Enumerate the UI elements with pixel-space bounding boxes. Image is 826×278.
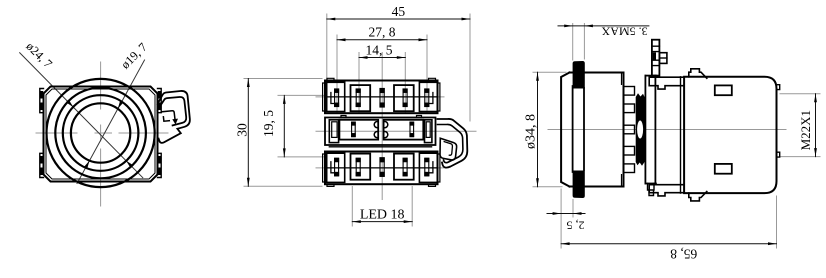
vertical centerline rear view xyxy=(381,53,383,200)
bottom row slot 3 xyxy=(403,158,407,176)
extension line 14,5 right xyxy=(404,53,406,114)
extension M22X1 bottom xyxy=(780,156,820,158)
block ear top xyxy=(649,77,684,89)
middle row slot left xyxy=(352,122,356,137)
middle row contact curls right box xyxy=(385,122,388,138)
extension line 19,5 bottom xyxy=(278,156,324,158)
o-ring black band xyxy=(636,93,645,166)
top row hook left-end xyxy=(331,93,335,104)
bezel front face xyxy=(561,73,569,187)
o-ring highlight lens xyxy=(637,121,643,139)
contact block inner left edge xyxy=(680,77,682,193)
middle row top bump left xyxy=(341,116,346,118)
middle row slot right xyxy=(410,122,414,137)
gasket top black xyxy=(573,61,585,89)
svg-text:14, 5: 14, 5 xyxy=(366,43,393,58)
bottom row box 3 xyxy=(394,154,414,180)
top row structural line xyxy=(325,96,438,98)
svg-text:27, 8: 27, 8 xyxy=(369,25,396,40)
square mounting body front xyxy=(44,87,158,182)
block right bump top xyxy=(777,85,780,90)
svg-text:2, 5: 2, 5 xyxy=(567,219,585,233)
bottom row slot left-end xyxy=(335,158,339,176)
bottom row box 2 xyxy=(351,154,371,180)
dimension line 14,5 xyxy=(359,57,405,59)
top terminal row outer xyxy=(325,81,438,114)
top row slot 2 xyxy=(356,89,360,107)
bezel outer circle xyxy=(47,79,155,187)
centerline middle row xyxy=(316,130,476,132)
tab left upper xyxy=(40,89,44,113)
svg-text:65, 8: 65, 8 xyxy=(670,247,697,262)
rear latch loop xyxy=(438,119,468,168)
bottom row right end cell xyxy=(419,153,437,182)
svg-text:3. 5MAX: 3. 5MAX xyxy=(601,25,647,39)
tower dark segment xyxy=(653,52,656,59)
middle row outer xyxy=(325,118,436,146)
coupling top cap xyxy=(645,75,656,77)
dimension line 65,8 xyxy=(561,243,776,245)
thread teeth xyxy=(624,87,635,173)
tab left lower xyxy=(40,153,44,177)
arrowhead dia24,7 lower xyxy=(126,161,133,169)
leader line dia 19,7 xyxy=(77,60,145,184)
top row slot 3 xyxy=(403,89,407,107)
block ear bottom xyxy=(649,185,684,196)
centerline horizontal front view xyxy=(36,132,168,134)
dimension line LED 18 xyxy=(352,221,412,223)
housing body xyxy=(585,73,624,187)
svg-text:ø34, 8: ø34, 8 xyxy=(523,114,538,149)
dimension line 19,5 xyxy=(283,95,285,156)
block bottom Z-tab xyxy=(689,192,707,201)
extension line 30 top xyxy=(244,78,322,80)
svg-text:M22X1: M22X1 xyxy=(798,110,813,150)
extension line 30 bottom xyxy=(244,185,322,187)
inner square line front xyxy=(46,89,155,179)
dimension line 30 xyxy=(247,79,249,187)
contact block body xyxy=(684,77,776,193)
top row slot center xyxy=(380,89,384,108)
middle row contact curls left box xyxy=(374,122,377,138)
bottom row slot center xyxy=(380,158,384,177)
bottom row structural line xyxy=(325,167,438,169)
coupling columns xyxy=(645,76,655,184)
bezel top edge xyxy=(570,72,574,74)
extension dia34,8 top xyxy=(533,71,566,73)
LED18 extension left xyxy=(351,187,353,227)
tab right upper xyxy=(158,89,162,113)
top row box 3 xyxy=(394,85,414,111)
extension line 45 left xyxy=(326,14,328,79)
extension M22X1 top xyxy=(780,93,820,95)
arrowhead dia19,7 upper xyxy=(118,100,124,108)
bottom row outer double edge left xyxy=(323,154,325,182)
extension 3,5MAX left xyxy=(572,24,574,61)
middle row left end cap xyxy=(329,120,338,143)
top row outer double edge right xyxy=(438,83,440,111)
middle row big box right xyxy=(384,120,424,140)
bezel bottom edge xyxy=(570,186,574,188)
bottom row left end cell xyxy=(327,153,345,182)
svg-text:30: 30 xyxy=(234,123,249,137)
bottom terminal row outer xyxy=(325,152,438,185)
arrowhead dia19,7 lower xyxy=(84,161,90,169)
svg-text:19, 5: 19, 5 xyxy=(261,110,276,137)
top row right end cell xyxy=(419,82,437,111)
top row box 2 xyxy=(351,85,371,111)
gasket bottom black xyxy=(573,171,585,199)
coupling bottom feet xyxy=(648,184,655,196)
bottom row bump left xyxy=(327,184,334,186)
button ring circle xyxy=(55,88,146,179)
block window bottom xyxy=(715,164,732,174)
middle row right end cap xyxy=(425,120,432,143)
dimension line M22X1 xyxy=(815,94,817,157)
middle row big box left xyxy=(339,120,378,140)
dimension line dia34,8 xyxy=(537,72,539,186)
extension line 19,5 top xyxy=(278,94,324,96)
tower segment lines xyxy=(652,46,660,65)
row centerline bottom xyxy=(316,167,444,169)
dimension line 27,8 xyxy=(337,39,427,41)
top row outer double edge left xyxy=(323,83,325,111)
extension 3,5MAX right xyxy=(583,24,585,60)
centerline vertical front view xyxy=(100,62,102,206)
LED18 extension right xyxy=(411,187,413,227)
top row bump right xyxy=(429,78,436,80)
dimension line 3,5MAX xyxy=(558,25,649,27)
block right bump bottom xyxy=(777,152,780,157)
bottom row slot 2 xyxy=(356,158,360,176)
centerline side view xyxy=(548,129,786,131)
extension 2,5 left / 65,8 left xyxy=(560,189,562,248)
circle dia 24,7 xyxy=(63,95,139,171)
tower column xyxy=(652,40,660,76)
bottom row bump right xyxy=(429,184,436,186)
svg-text:45: 45 xyxy=(392,4,406,19)
svg-text:ø19, 7: ø19, 7 xyxy=(118,40,150,72)
dimension line 2,5 xyxy=(547,213,585,215)
top row hook right-end xyxy=(429,93,433,104)
bottom row slot right-end xyxy=(425,158,429,176)
extension line 45 right xyxy=(469,14,471,121)
middle row bottom double line xyxy=(329,146,431,148)
bottom row outer double edge right xyxy=(438,154,440,182)
svg-text:LED 18: LED 18 xyxy=(360,207,405,222)
extension 2,5 right xyxy=(572,200,574,218)
block window top xyxy=(715,85,732,95)
bottom row hook right-end xyxy=(429,162,433,173)
dimension line 45 xyxy=(327,18,470,20)
svg-text:ø24, 7: ø24, 7 xyxy=(23,39,55,71)
circle dia 19,7 xyxy=(71,103,130,162)
extension line 27,8 right xyxy=(426,35,428,113)
extension dia34,8 bottom xyxy=(533,186,562,188)
block top Z-tab xyxy=(689,69,707,78)
row centerline top xyxy=(316,96,444,98)
bottom row hook left-end xyxy=(331,162,335,173)
top row slot left-end xyxy=(335,89,339,107)
tab right lower xyxy=(158,153,162,177)
top row left end cell xyxy=(327,82,345,111)
gasket band lines xyxy=(573,86,584,172)
extension 65,8 right xyxy=(776,196,778,248)
housing step line xyxy=(621,73,623,187)
coupling bottom cap xyxy=(645,183,656,185)
extension line 27,8 left xyxy=(336,35,338,113)
release latch front view xyxy=(158,91,190,143)
tower side box xyxy=(659,53,667,64)
middle row top bump right xyxy=(417,116,422,118)
arrowhead dia24,7 upper xyxy=(66,100,73,108)
extension line 14,5 left xyxy=(358,53,360,114)
leader line dia 24,7 xyxy=(20,53,143,178)
top row bump left xyxy=(327,78,334,80)
top row slot right-end xyxy=(425,89,429,107)
